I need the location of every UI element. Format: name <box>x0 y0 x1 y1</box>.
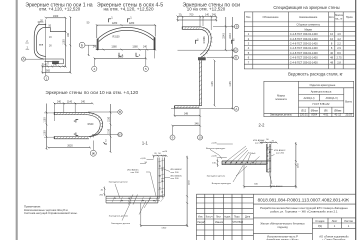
svg-text:2240: 2240 <box>223 33 226 39</box>
svg-text:240: 240 <box>143 46 148 49</box>
svg-text:Ведомость расхода стали, кг: Ведомость расхода стали, кг <box>288 72 343 77</box>
svg-text:РД: РД <box>318 224 322 228</box>
svg-text:R940: R940 <box>88 123 94 126</box>
svg-text:1280: 1280 <box>112 22 118 25</box>
svg-text:140: 140 <box>53 64 58 67</box>
svg-text:Ø10 А500С: Ø10 А500С <box>171 168 183 171</box>
svg-text:А: А <box>235 107 237 111</box>
svg-text:шаг 200: шаг 200 <box>276 153 285 155</box>
svg-text:1380: 1380 <box>111 46 117 49</box>
svg-text:250х6: 250х6 <box>249 153 256 155</box>
svg-text:348: 348 <box>184 113 189 116</box>
svg-text:ГИП-НВ13: ГИП-НВ13 <box>232 222 244 224</box>
svg-text:С-4-8 ПСТ 039-02-1400: С-4-8 ПСТ 039-02-1400 <box>290 56 318 60</box>
svg-text:Жилое «Металлическое» бетонных: Жилое «Металлическое» бетонных <box>260 221 305 225</box>
svg-text:10: 10 <box>198 136 202 140</box>
svg-text:140: 140 <box>43 64 48 67</box>
svg-text:1150: 1150 <box>298 163 300 168</box>
svg-text:мов: мов <box>39 43 44 46</box>
svg-text:8004: 8004 <box>311 113 317 117</box>
svg-text:ед., кг: ед., кг <box>335 18 342 21</box>
svg-text:700: 700 <box>189 14 194 17</box>
svg-text:Марки: Марки <box>304 27 312 31</box>
svg-text:1135: 1135 <box>229 81 232 87</box>
svg-text:240: 240 <box>93 46 98 49</box>
svg-text:Дата: Дата <box>245 216 251 218</box>
svg-text:140: 140 <box>205 14 210 17</box>
svg-text:А: А <box>22 57 24 61</box>
svg-text:А500(А-V): А500(А-V) <box>326 96 338 100</box>
svg-text:Кол.: Кол. <box>329 15 334 19</box>
svg-text:Всего: Всего <box>345 99 352 103</box>
svg-text:240: 240 <box>212 14 217 17</box>
svg-text:С-4-8 ПСТ 039-02-1400: С-4-8 ПСТ 039-02-1400 <box>290 46 318 50</box>
svg-text:2,8: 2,8 <box>337 60 341 64</box>
svg-text:Иванов: Иванов <box>215 222 224 224</box>
svg-text:R3130: R3130 <box>112 36 120 39</box>
svg-text:Система несущей Справочниковой: Система несущей Справочниковой зоны. <box>24 211 78 215</box>
svg-text:1150: 1150 <box>189 180 191 185</box>
svg-text:подъезд: подъезд <box>277 226 288 229</box>
svg-text:Закладные детали: Закладные детали <box>109 181 129 183</box>
svg-text:1150: 1150 <box>43 130 46 136</box>
svg-text:2620: 2620 <box>67 145 73 148</box>
svg-text:Изм.: Изм. <box>198 216 203 218</box>
svg-text:2240: 2240 <box>229 33 232 39</box>
svg-text:2,75: 2,75 <box>336 56 342 60</box>
svg-text:Ø6мм: Ø6мм <box>311 109 318 113</box>
svg-text:ГОСТ 5781-82: ГОСТ 5781-82 <box>313 102 330 106</box>
svg-text:№док.: №док. <box>224 215 231 218</box>
svg-text:С-4-8 ПСТ 039-02-1400: С-4-8 ПСТ 039-02-1400 <box>290 32 318 36</box>
svg-text:Подп.: Подп. <box>234 216 240 218</box>
svg-text:Разраб.: Разраб. <box>197 222 206 224</box>
svg-text:1280: 1280 <box>129 22 135 25</box>
svg-text:Б/1: Б/1 <box>234 49 238 52</box>
svg-text:Сборные элементы: Сборные элементы <box>296 23 320 27</box>
svg-text:Поз.: Поз. <box>246 15 251 19</box>
svg-text:240: 240 <box>57 101 62 104</box>
svg-text:Ø10 А500С: Ø10 А500С <box>274 149 286 152</box>
svg-text:2,9: 2,9 <box>337 46 341 50</box>
svg-text:Ø10 А500С: Ø10 А500С <box>127 168 139 171</box>
svg-text:20,03: 20,03 <box>345 113 352 117</box>
svg-text:Листов: Листов <box>344 219 353 223</box>
svg-text:шаг 200: шаг 200 <box>171 172 180 174</box>
svg-text:элемента: элемента <box>275 98 287 101</box>
svg-text:Закладные детали: Закладные детали <box>111 223 131 225</box>
svg-text:1140: 1140 <box>67 101 73 104</box>
svg-text:348: 348 <box>195 123 200 126</box>
svg-text:Эркерные стены по оси 10 на от: Эркерные стены по оси 10 на отм. +4,120 <box>45 90 138 96</box>
svg-text:С-4-8 ПСТ 039-02-1400: С-4-8 ПСТ 039-02-1400 <box>290 60 318 64</box>
svg-text:район, ул. Горновка — ЖК «Слав: район, ул. Горновка — ЖК «Славянский» эт… <box>271 210 338 214</box>
svg-text:+4,05: +4,05 <box>211 142 217 144</box>
svg-text:1150: 1150 <box>107 116 110 122</box>
svg-text:Марка: Марка <box>277 94 285 98</box>
svg-text:Ø6: Ø6 <box>324 109 328 113</box>
svg-text:8,6: 8,6 <box>337 51 341 55</box>
svg-text:С-4-8 ПСТ 039-02-1400: С-4-8 ПСТ 039-02-1400 <box>290 51 318 55</box>
svg-text:4,2: 4,2 <box>337 37 341 41</box>
svg-text:2,2: 2,2 <box>337 42 341 46</box>
svg-text:Закладные детали: Закладные детали <box>109 216 129 218</box>
svg-text:на отм. +4,120, +12,520: на отм. +4,120, +12,520 <box>103 7 154 12</box>
svg-text:Ø10 А500С: Ø10 А500С <box>253 139 265 142</box>
svg-text:565: 565 <box>46 70 51 73</box>
svg-text:1380: 1380 <box>132 46 138 49</box>
svg-text:Масса: Масса <box>335 13 343 17</box>
svg-text:шаг 200: шаг 200 <box>255 143 264 145</box>
svg-text:Арматура класса: Арматура класса <box>311 89 332 93</box>
svg-text:Б: Б <box>235 56 237 60</box>
svg-text:120,01: 120,01 <box>300 113 308 117</box>
svg-text:Ø10 А500С: Ø10 А500С <box>171 175 183 178</box>
svg-text:Прим.: Прим. <box>346 15 354 19</box>
svg-text:Выпуски арматуры: Выпуски арматуры <box>212 183 232 185</box>
svg-text:Ø8мм: Ø8мм <box>334 109 341 113</box>
svg-text:4,6: 4,6 <box>337 32 341 36</box>
svg-text:Б/1: Б/1 <box>118 134 122 137</box>
svg-text:Спецификация на эркерные стены: Спецификация на эркерные стены <box>273 5 339 10</box>
svg-text:1300: 1300 <box>53 15 59 18</box>
svg-text:Стадия: Стадия <box>315 219 325 223</box>
svg-text:В: В <box>236 25 238 29</box>
svg-text:Наименование: Наименование <box>299 15 318 19</box>
svg-text:Выпуски арматуры: Выпуски арматуры <box>206 148 226 150</box>
svg-text:отм. +4,120, +12,520: отм. +4,120, +12,520 <box>39 7 81 12</box>
svg-text:180: 180 <box>67 32 70 37</box>
svg-text:1150: 1150 <box>107 128 110 134</box>
svg-text:Лист: Лист <box>332 219 339 223</box>
svg-text:Обозначение: Обозначение <box>262 15 279 19</box>
svg-text:1-1: 1-1 <box>142 141 149 146</box>
svg-text:а=20: а=20 <box>162 151 168 153</box>
svg-text:С-4-8 ПСТ 039-02-1400: С-4-8 ПСТ 039-02-1400 <box>290 37 318 41</box>
svg-text:1135: 1135 <box>211 81 214 87</box>
svg-text:+4,05: +4,05 <box>140 158 146 160</box>
svg-text:2-2: 2-2 <box>259 123 266 128</box>
svg-text:4-51: 4-51 <box>323 113 329 117</box>
svg-text:Закладная деталь: Закладная деталь <box>207 175 226 177</box>
svg-text:10 на отм. +12,520: 10 на отм. +12,520 <box>187 7 226 12</box>
svg-text:Закладная деталь: Закладная деталь <box>270 113 293 117</box>
svg-text:шаг 200: шаг 200 <box>171 178 180 180</box>
svg-text:А240(А-I): А240(А-I) <box>303 96 314 100</box>
svg-text:С-4-8 ПСТ 039-02-1400: С-4-8 ПСТ 039-02-1400 <box>290 42 318 46</box>
svg-text:8018.081.084-Р.0801.113.0007.4: 8018.081.084-Р.0801.113.0007.4082.801-КЖ <box>258 198 350 203</box>
svg-text:1150: 1150 <box>62 39 65 45</box>
svg-text:Кол.уч: Кол.уч <box>206 216 214 218</box>
svg-text:Ø12: Ø12 <box>301 109 306 113</box>
svg-text:Б: Б <box>81 43 83 47</box>
svg-text:Ø10 А500С: Ø10 А500С <box>271 185 283 188</box>
svg-text:41-12: 41-12 <box>334 113 341 117</box>
svg-text:1300: 1300 <box>161 228 167 230</box>
svg-text:1150: 1150 <box>43 117 46 123</box>
svg-text:10: 10 <box>92 151 96 155</box>
svg-text:Изделия арматурные: Изделия арматурные <box>310 83 336 87</box>
svg-text:+4,05: +4,05 <box>211 156 217 158</box>
svg-text:R4068: R4068 <box>203 36 206 44</box>
svg-text:шаг 200: шаг 200 <box>131 172 140 174</box>
svg-text:240: 240 <box>81 101 86 104</box>
svg-text:В: В <box>119 110 121 114</box>
